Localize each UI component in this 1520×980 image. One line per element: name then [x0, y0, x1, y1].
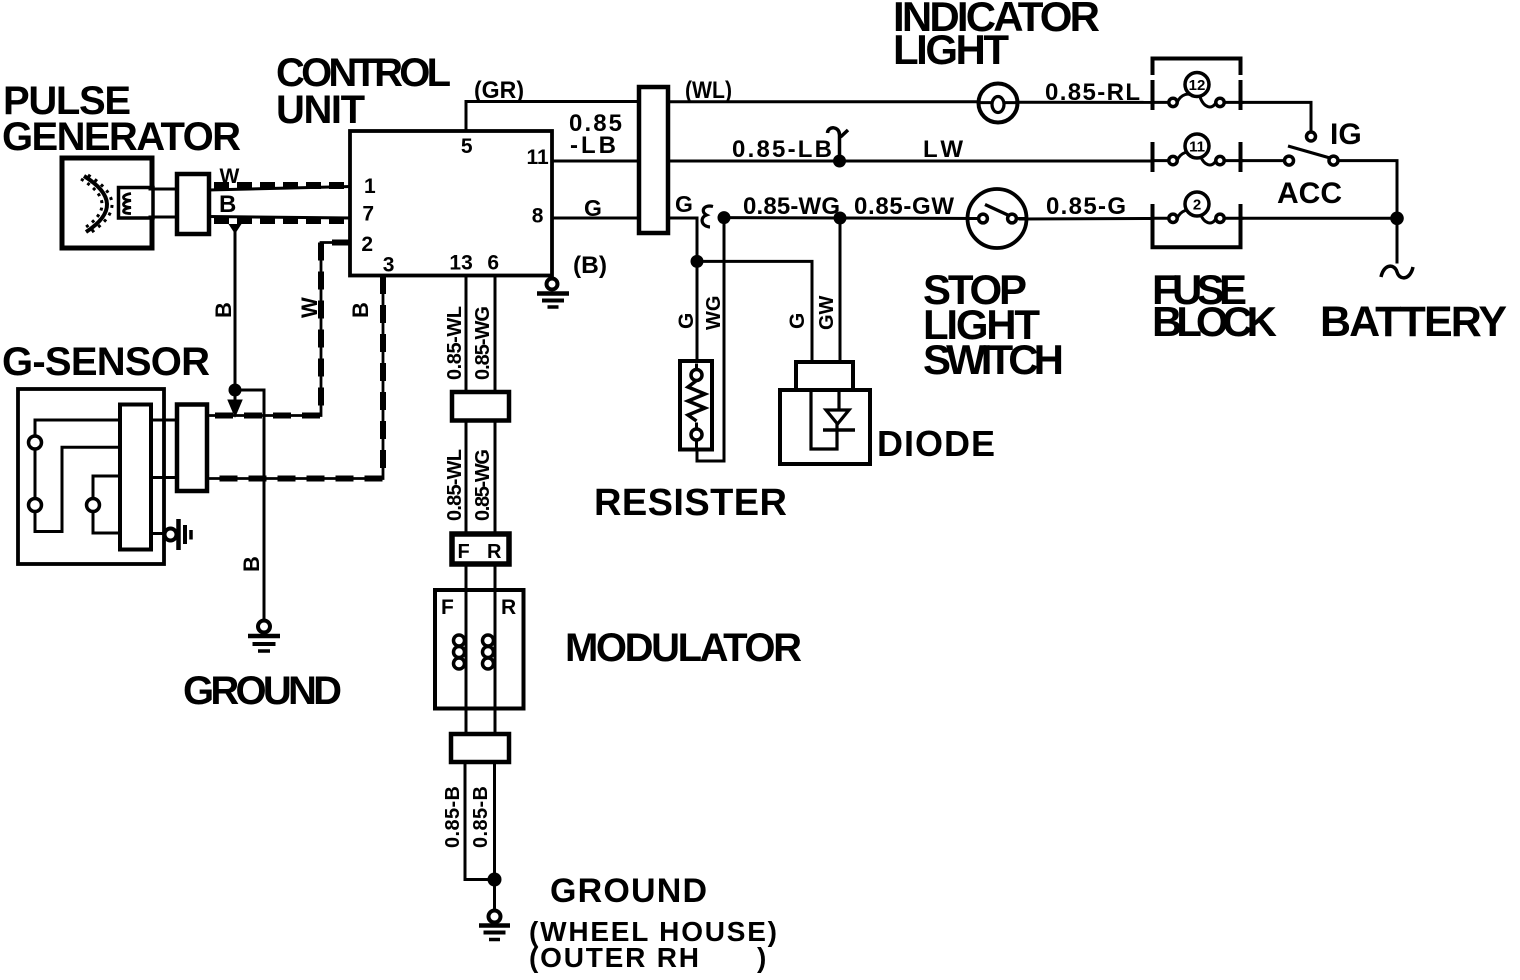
- svg-text:0.85-LB: 0.85-LB: [732, 136, 832, 163]
- wire LB row 2 right of connector A: [668, 160, 1153, 163]
- svg-text:G: G: [786, 313, 809, 329]
- svg-text:0.85-B: 0.85-B: [442, 786, 464, 848]
- fuse block box: [1153, 59, 1241, 248]
- svg-text:MODULATOR: MODULATOR: [565, 626, 802, 670]
- wire 0.85-B left down: [465, 762, 495, 880]
- svg-text:0.85-G: 0.85-G: [1046, 193, 1126, 220]
- connector M1: [452, 392, 509, 421]
- wire row 2 to IG switch left contact: [1242, 159, 1284, 162]
- splice pigtail on LB wire: [828, 128, 849, 160]
- svg-text:R: R: [501, 596, 516, 619]
- label 0.85-GW: [854, 193, 954, 220]
- text FUSE BLOCK: [1152, 266, 1277, 345]
- label 0.85-G: [1046, 193, 1126, 220]
- junction dot at bottom ground: [488, 873, 502, 887]
- junction dot B wire: [229, 384, 242, 397]
- modulator R coil: [483, 635, 494, 669]
- label (WL): [685, 77, 732, 104]
- shield path A from pin 2 to g-sensor cable (solid): [207, 243, 350, 416]
- pulse generator coil: [124, 194, 132, 214]
- g-sensor cable wire upper: [151, 419, 179, 422]
- svg-text:(B): (B): [573, 252, 607, 279]
- g-sensor GS1 outer box: [18, 389, 164, 564]
- svg-text:(GR): (GR): [474, 77, 524, 104]
- wire R to modulator: [494, 564, 497, 590]
- wire WL row 1 right of connector A: [668, 100, 976, 103]
- label 0.85-RL: [1045, 79, 1140, 106]
- svg-text:WG: WG: [703, 296, 725, 330]
- svg-text:W: W: [220, 165, 240, 188]
- svg-text:GENERATOR: GENERATOR: [2, 115, 241, 159]
- connector A (control unit harness): [639, 87, 668, 233]
- svg-text:0.85-B: 0.85-B: [470, 786, 492, 848]
- label R in FR connector: [487, 541, 502, 563]
- junction dot GW branch: [834, 212, 847, 225]
- label B (rotated) on shield path B: [348, 302, 373, 318]
- svg-text:7: 7: [362, 203, 374, 226]
- indicator light lamp: [979, 84, 1018, 123]
- shield dashed bottom of pulse generator cable: [214, 217, 349, 224]
- modulator F coil: [454, 635, 465, 669]
- resistor element zigzag: [688, 381, 705, 422]
- connector g-sensor: [177, 405, 207, 492]
- svg-text:(WL): (WL): [685, 77, 732, 104]
- diode internal wiring: [811, 390, 839, 449]
- control unit ground wire: [550, 276, 553, 279]
- label W (rotated) on shield path A: [297, 297, 322, 318]
- pin 3 label: [383, 254, 395, 277]
- wire battery node down: [1396, 218, 1399, 262]
- fuse 12: [1153, 73, 1242, 107]
- junction dot WG splice: [718, 211, 731, 224]
- svg-text:F: F: [441, 596, 454, 619]
- svg-text:R: R: [487, 541, 502, 563]
- pin 2 label: [361, 233, 373, 256]
- svg-text:0.85-GW: 0.85-GW: [854, 193, 954, 220]
- label 0.85-WG: [743, 193, 840, 220]
- pin 1 label: [364, 175, 376, 198]
- ground symbol G1: [248, 621, 280, 652]
- svg-text:BATTERY: BATTERY: [1320, 298, 1507, 346]
- wire B shield drain down from pulse cable: [234, 226, 237, 390]
- label 0.85-WL rotated lower: [444, 449, 466, 521]
- shield path B from pin 3 to g-sensor cable (solid+dash): [207, 276, 383, 479]
- wire pulse generator to connector (lower): [150, 216, 179, 219]
- wire pin 6 down: [494, 276, 497, 394]
- svg-text:13: 13: [449, 252, 472, 275]
- label B in pulse generator cable: [219, 191, 236, 218]
- svg-text:B: B: [211, 302, 236, 318]
- svg-text:LIGHT: LIGHT: [893, 26, 1009, 73]
- svg-text:SWITCH: SWITCH: [923, 336, 1064, 383]
- IG switch right contact: [1329, 156, 1338, 165]
- junction dot LB/LW splice: [833, 155, 846, 168]
- control unit U1 box: [350, 131, 552, 276]
- wire switch to fuse block row 3: [1020, 217, 1153, 221]
- wire pin 5 to connector A: [466, 102, 640, 132]
- svg-text:8: 8: [532, 205, 544, 228]
- label W on shield (rotated): [220, 165, 240, 188]
- label G (rotated) at diode: [786, 313, 809, 329]
- svg-text:BLOCK: BLOCK: [1152, 298, 1277, 345]
- ground symbol G3 wheel house: [479, 880, 510, 940]
- label F in modulator: [441, 596, 454, 619]
- label 0.85-B rotated left: [442, 786, 464, 848]
- stop light switch circle: [968, 189, 1027, 248]
- ground symbol G4 rotated at g-sensor: [165, 519, 192, 550]
- modulator MOD box: [435, 590, 524, 709]
- g-sensor wire 4: [93, 512, 120, 534]
- svg-text:LW: LW: [923, 136, 963, 163]
- svg-text:GROUND: GROUND: [550, 872, 707, 910]
- pulse generator pickup crescent: [81, 175, 112, 233]
- label G right of connector A: [675, 191, 693, 217]
- wire 0.85-WG row 3: [724, 216, 840, 219]
- svg-text:GW: GW: [816, 295, 838, 330]
- pin 7 label: [362, 203, 374, 226]
- svg-text:0.85-WL: 0.85-WL: [444, 306, 466, 380]
- svg-text:G: G: [675, 313, 698, 329]
- wire pin 13 down: [465, 276, 468, 394]
- wire R below modulator: [494, 709, 497, 735]
- svg-text:G: G: [584, 195, 602, 221]
- wire pin 11 to connector A: [552, 160, 640, 163]
- label R in modulator: [501, 596, 516, 619]
- pin 8 label: [532, 205, 544, 228]
- svg-text:0.85-WL: 0.85-WL: [444, 449, 466, 521]
- svg-text:1: 1: [364, 175, 376, 198]
- wire pulse generator to connector (upper): [150, 188, 179, 191]
- pin 13 label: [449, 252, 472, 275]
- splice pigtail on G/WG wire: [702, 206, 713, 227]
- svg-text:0.85-WG: 0.85-WG: [743, 193, 840, 220]
- text STOP LIGHT SWITCH: [923, 266, 1064, 383]
- label 0.85-WL rotated upper: [444, 306, 466, 380]
- resistor R1 box: [680, 361, 712, 450]
- svg-text:DIODE: DIODE: [877, 423, 995, 464]
- g-sensor wire 1: [35, 420, 120, 436]
- svg-text:2: 2: [1193, 197, 1201, 214]
- label (GR): [474, 77, 524, 104]
- wire connector to control unit pin 7: [209, 217, 350, 219]
- label 0.85-B rotated right: [470, 786, 492, 848]
- battery squiggle: [1381, 266, 1413, 278]
- g-sensor terminal 1: [29, 436, 42, 449]
- svg-text:UNIT: UNIT: [276, 88, 365, 132]
- wire IG switch to battery node: [1338, 161, 1397, 219]
- svg-text:B: B: [219, 191, 236, 218]
- svg-text:GROUND: GROUND: [183, 669, 342, 713]
- label B (rotated) on ground wire: [239, 556, 264, 572]
- pin 6 label: [487, 252, 499, 275]
- label B (rotated) on B drain wire: [211, 302, 236, 318]
- pulse generator PG1 box: [62, 158, 152, 248]
- ground symbol G2 at control unit: [537, 279, 569, 308]
- g-sensor inner connector: [120, 405, 151, 550]
- label 0.85-WG rotated lower: [472, 449, 494, 521]
- g-sensor ground stub wire: [151, 532, 164, 535]
- diode connector: [796, 362, 853, 390]
- text G-SENSOR: [2, 340, 210, 384]
- text CONTROL UNIT: [276, 51, 451, 132]
- resistor top terminal: [691, 365, 702, 381]
- label 0.85-LB: [732, 136, 832, 163]
- svg-text:11: 11: [526, 146, 549, 169]
- svg-text:): ): [757, 942, 766, 973]
- connector FR: [452, 534, 509, 564]
- svg-text:G: G: [675, 191, 693, 217]
- diode symbol triangle: [826, 410, 849, 424]
- junction dot on G branch row: [691, 255, 704, 268]
- g-sensor wire t1-t2: [34, 449, 37, 499]
- shield stub arrow to g-sensor cable: [230, 392, 241, 414]
- IG switch top contact: [1307, 132, 1316, 141]
- wire WG down to resistor bottom: [697, 218, 724, 461]
- pin 11 label: [526, 146, 549, 169]
- stop light switch left contact: [979, 214, 988, 223]
- wire F below modulator: [465, 709, 468, 735]
- svg-text:-LB: -LB: [570, 132, 616, 159]
- g-sensor terminal 3: [87, 499, 100, 512]
- label IG: [1330, 118, 1362, 151]
- svg-text:3: 3: [383, 254, 395, 277]
- text RESISTER: [594, 482, 787, 524]
- stop light switch blade: [968, 205, 1027, 219]
- svg-text:F: F: [458, 541, 470, 563]
- svg-text:RESISTER: RESISTER: [594, 482, 787, 524]
- wire G branch to diode: [697, 261, 812, 364]
- fuse 2: [1153, 192, 1242, 223]
- text MODULATOR: [565, 626, 802, 670]
- svg-text:6: 6: [487, 252, 499, 275]
- wire connector to control unit pin 1: [209, 187, 350, 191]
- wire GW down to diode: [839, 218, 842, 364]
- svg-text:5: 5: [461, 135, 473, 158]
- svg-text:ACC: ACC: [1277, 177, 1342, 210]
- svg-text:12: 12: [1189, 77, 1206, 94]
- g-sensor cable wire lower: [151, 476, 179, 479]
- resistor bottom terminal: [691, 424, 702, 446]
- connector pulse generator: [177, 174, 209, 234]
- label 0.85 -LB: [569, 110, 622, 159]
- label GW (rotated) at diode: [816, 295, 838, 330]
- pulse generator pole piece: [119, 188, 154, 219]
- junction dot battery node: [1390, 212, 1404, 226]
- g-sensor wire 2: [35, 447, 120, 531]
- wire WG connector M1 to FR: [494, 421, 497, 534]
- label G (rotated) at resistor: [675, 313, 698, 329]
- label (B): [573, 252, 607, 279]
- diode cathode bar: [823, 428, 855, 432]
- label 0.85-WG rotated upper: [472, 306, 494, 380]
- g-sensor wire 3: [93, 476, 120, 499]
- shield drain junction triangle at pulse cable: [229, 224, 242, 234]
- wire G row 3 from connector A: [668, 218, 697, 361]
- svg-text:0.85-WG: 0.85-WG: [472, 449, 494, 521]
- svg-text:0.85-WG: 0.85-WG: [472, 306, 494, 380]
- wire 0.85-B right down: [493, 762, 496, 880]
- label F in FR connector: [458, 541, 470, 563]
- connector M2: [451, 734, 509, 762]
- svg-text:0.85-RL: 0.85-RL: [1045, 79, 1140, 106]
- label G left of connector A: [584, 195, 602, 221]
- text GROUND left: [183, 669, 342, 713]
- g-sensor terminal 2: [29, 499, 42, 512]
- wire row 1 lamp to fuse block: [1017, 101, 1153, 104]
- svg-text:2: 2: [361, 233, 373, 256]
- svg-text:G-SENSOR: G-SENSOR: [2, 340, 210, 384]
- label LW: [923, 136, 963, 163]
- svg-text:IG: IG: [1330, 118, 1362, 151]
- wire F to modulator: [465, 564, 468, 590]
- label WG (rotated) at resistor: [703, 296, 725, 330]
- IG switch left contact: [1285, 156, 1294, 165]
- fuse 11: [1153, 134, 1242, 165]
- pin 5 label: [461, 135, 473, 158]
- svg-text:11: 11: [1189, 139, 1205, 156]
- text INDICATOR LIGHT: [893, 0, 1100, 73]
- wire pin 8 to connector A: [552, 217, 640, 220]
- IG switch blade: [1288, 146, 1330, 158]
- wire row 3 to battery node: [1242, 217, 1397, 220]
- shield dashed top of pulse generator cable: [214, 182, 349, 189]
- text BATTERY: [1320, 298, 1507, 346]
- svg-text:(OUTER RH: (OUTER RH: [529, 942, 699, 973]
- modulator F winding wire: [465, 590, 468, 709]
- text GROUND wheel house: [529, 872, 777, 973]
- wire row 1 to IG switch: [1242, 102, 1311, 131]
- label ACC: [1277, 177, 1342, 210]
- stop light switch right contact: [1008, 214, 1017, 223]
- svg-text:W: W: [297, 297, 322, 318]
- diode D1 box: [780, 390, 870, 464]
- text DIODE: [877, 423, 995, 464]
- wire WL connector M1 to FR: [465, 421, 468, 534]
- wire 0.85-GW row 3: [840, 217, 979, 221]
- modulator R winding wire: [494, 590, 497, 709]
- text PULSE GENERATOR: [2, 79, 241, 159]
- wire B to ground: [235, 390, 264, 620]
- svg-text:B: B: [239, 556, 264, 572]
- svg-text:B: B: [348, 302, 373, 318]
